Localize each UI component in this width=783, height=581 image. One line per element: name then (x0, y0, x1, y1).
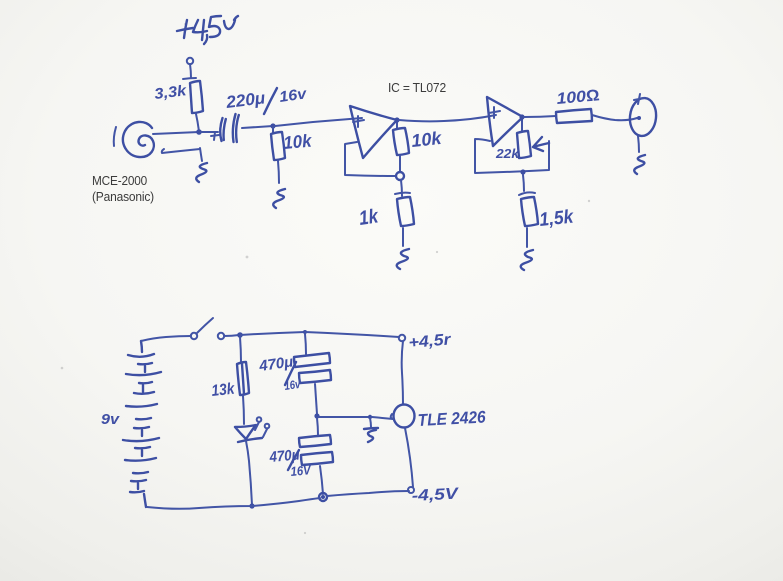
capacitor 470u (lower) plate A (299, 435, 331, 447)
wire cap1 to mid junction (315, 384, 317, 414)
ground (mid rail) (370, 418, 371, 427)
potentiometer 22k body (517, 131, 531, 158)
resistor 1,5k (521, 197, 538, 226)
ground (10k) (273, 189, 285, 208)
wire jack to ground (638, 136, 639, 152)
wire 1k to ground (402, 228, 404, 246)
wire 13k to LED (243, 396, 244, 424)
wire 3.3k to junction (196, 114, 199, 132)
content groups inserted below (61, 23, 591, 534)
node at op2 output (519, 114, 524, 119)
wire mic lower terminal (162, 149, 200, 153)
tick at 1k top (395, 193, 410, 194)
svg-text:10k: 10k (283, 131, 314, 153)
resistor 13k (237, 362, 249, 395)
wire junction down to 10k (272, 127, 274, 133)
wire 100ohm to output jack (592, 115, 637, 120)
wire op2 output down to pot (521, 118, 523, 131)
TLE2426 input lead hook (391, 414, 393, 419)
svg-text:-4,5V: -4,5V (411, 486, 459, 505)
ground (jack) (634, 155, 645, 174)
resistor 10k (feedback) (393, 128, 409, 155)
ground (mic) (196, 163, 207, 182)
op-amp U1A (350, 106, 397, 158)
wire TLE to -4.5 terminal (405, 428, 413, 487)
wire capacitor to 10k junction (242, 126, 273, 128)
plus input mark U1B (489, 107, 500, 118)
wire LED to bottom rail (246, 441, 252, 505)
slash 220u/16v (264, 88, 277, 114)
svg-text:13k: 13k (211, 381, 237, 400)
capacitor 220u/16V (two curved plates) (220, 118, 226, 141)
terminal +4,5V (399, 335, 405, 341)
wire mid junction to cap2 (317, 418, 318, 435)
microphone MCE-2000 (spiral) (123, 122, 154, 157)
label +4,5V (handwritten, drawn strokes) (177, 16, 238, 44)
svg-text:IC = TL072: IC = TL072 (388, 80, 446, 95)
slash 470u/16v lower (288, 450, 299, 470)
ground (1,5k) (521, 250, 533, 270)
svg-text:(Panasonic): (Panasonic) (92, 189, 154, 204)
wire cap2 to bottom junction (320, 466, 323, 494)
svg-text:MCE-2000: MCE-2000 (92, 173, 147, 188)
node circle (op1 fb / 1k) (396, 172, 404, 180)
resistor 3,3k (190, 81, 203, 113)
node junction mic/3.3k/cap (196, 129, 202, 135)
wire 1,5k to ground (526, 228, 528, 247)
wire op1 output down to 10k feedback (396, 121, 398, 128)
node junction cap/10k (270, 123, 275, 128)
TLE2426 body (394, 405, 415, 428)
svg-text:9v: 9v (101, 411, 121, 428)
plus input mark U1A (353, 116, 364, 127)
wire rail to cap branch (240, 332, 305, 335)
capacitor 470u (upper) plate A (294, 353, 330, 367)
wire battery+ to switch (141, 336, 191, 341)
node LED/bottom rail (249, 503, 254, 508)
wire 13k branch down (240, 337, 241, 362)
svg-text:TLE 2426: TLE 2426 (417, 407, 486, 430)
ground (1k) (397, 249, 409, 269)
LED cathode bar (238, 438, 262, 442)
wire mic to junction node (153, 132, 199, 134)
node bottom junction (blob) (319, 493, 327, 501)
svg-text:1k: 1k (358, 205, 381, 230)
wire bottom rail battery to blob (147, 498, 320, 509)
wire 10k to ground (278, 161, 279, 183)
potentiometer wiper arrow (533, 137, 549, 151)
node cap branch (303, 330, 307, 334)
feedback loop wire U1B (475, 139, 549, 173)
tick at 3,3k top (183, 78, 196, 79)
terminal -4,5V (408, 487, 414, 493)
wire 10k feedback to node circle (399, 156, 401, 172)
wire junction to op-amp U1A input (275, 118, 362, 126)
switch SW1 (191, 333, 197, 339)
wire junction to capacitor (201, 131, 218, 133)
capacitor 470u (lower) plate B (301, 452, 333, 465)
jack center pin (637, 116, 641, 120)
battery 9V cells (123, 341, 161, 507)
svg-text:22k: 22k (495, 146, 520, 161)
node at op1 output (394, 117, 399, 122)
slash 470u/16v upper (285, 362, 296, 385)
LED D1 (235, 425, 256, 439)
jack top mark (634, 94, 644, 104)
wire op2 output to 100ohm (524, 116, 556, 117)
wire mid rail to TLE2426 (372, 417, 393, 419)
svg-text:1,5k: 1,5k (538, 206, 575, 231)
resistor 10k (input) (271, 132, 285, 160)
power node circle at top of 3.3k (187, 58, 193, 64)
wire +4.5 terminal down to TLE (402, 341, 403, 404)
resistor 1k (397, 197, 414, 226)
wire switch to 13k junction (224, 335, 239, 336)
node mid rail / ground (368, 415, 372, 419)
polarity + of capacitor (211, 132, 219, 140)
svg-text:16V: 16V (290, 462, 312, 479)
feedback loop wire U1A (345, 142, 396, 176)
wire cap branch down (305, 334, 306, 354)
capacitor 470u (upper) plate B (299, 370, 331, 383)
LED arrows (255, 417, 269, 437)
op-amp U1B (487, 97, 523, 146)
wire node down to 1,5k (523, 175, 524, 191)
wire rail to +4.5 terminal (305, 332, 399, 337)
node 13k branch (237, 332, 243, 338)
svg-text:10k: 10k (410, 128, 443, 151)
wire node to 1k (401, 180, 402, 196)
node mid junction (314, 413, 319, 418)
node pot bottom / fb bottom (520, 169, 525, 174)
wire -4.5 rail (327, 491, 409, 496)
mic tick mark (114, 127, 116, 146)
wire mid rail (319, 416, 369, 418)
resistor 100 ohm (horizontal) (556, 109, 592, 123)
output jack (628, 97, 658, 138)
tick at 1,5k top (519, 192, 535, 195)
wire power stub down to resistor (190, 64, 191, 78)
wire op1 output to op2 input (399, 115, 496, 121)
wire down to mic ground (200, 148, 202, 161)
svg-text:16v: 16v (283, 377, 302, 393)
